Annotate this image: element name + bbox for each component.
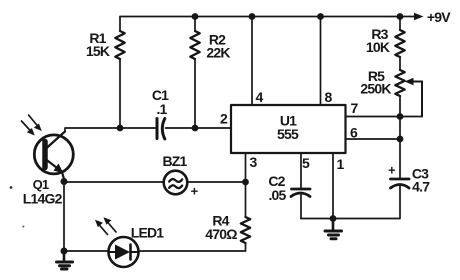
capacitor C1: [157, 119, 165, 140]
resistor R1: [115, 31, 124, 59]
junction: top rail / R3: [397, 13, 404, 20]
wire: R3 to R5: [399, 57, 401, 70]
junction: top rail / pin 4: [249, 13, 256, 20]
ground (right, pin 1): [325, 219, 342, 239]
transistor Q1 (phototransistor): [34, 132, 73, 180]
wire: Q1 emitter down to ground node: [63, 182, 65, 252]
wire: emitter to BZ1: [64, 181, 164, 183]
resistor R2: [190, 31, 199, 59]
wire: R1 top lead: [119, 17, 121, 32]
light arrows into Q1: [22, 115, 42, 136]
svg-text:2: 2: [220, 111, 228, 127]
LED LED1: [109, 237, 139, 267]
wire: R4 bottom to LED1: [139, 243, 246, 251]
svg-text:5: 5: [302, 155, 310, 171]
svg-text:8: 8: [325, 89, 333, 105]
resistor R4: [241, 217, 250, 243]
svg-text:470Ω: 470Ω: [205, 226, 237, 242]
power arrow +9V: [414, 13, 424, 21]
wire: pin 1 to ground: [332, 153, 334, 219]
wire: pin 6 to column: [346, 138, 401, 140]
svg-text:L14G2: L14G2: [23, 191, 63, 207]
svg-text:BZ1: BZ1: [162, 153, 187, 169]
junction: R1 bottom / collector node: [117, 125, 124, 132]
junction: R2 bottom / pin 2 node: [192, 125, 199, 132]
wire: pin 3 column: [245, 153, 247, 217]
wire: R1 bottom lead: [119, 59, 121, 128]
wire: LED1 to ground node: [64, 250, 109, 252]
buzzer BZ1: [164, 171, 188, 195]
wire: pin 5 upper lead: [300, 153, 302, 189]
wire: R5 bottom column to C3: [399, 96, 401, 179]
svg-text:+9V: +9V: [427, 9, 451, 25]
wire: Q1 collector up to node: [65, 128, 156, 132]
junction: top rail / pin 8: [317, 13, 324, 20]
svg-text:3: 3: [250, 154, 258, 170]
svg-text:4.7: 4.7: [412, 179, 430, 195]
junction: Q1 emitter node: [61, 178, 68, 185]
svg-text:555: 555: [277, 126, 299, 142]
wire: R2 bottom lead: [194, 59, 196, 128]
svg-text:LED1: LED1: [131, 225, 165, 241]
wire: pin 7 to R5 node: [346, 116, 423, 118]
wire: R2 top lead: [194, 17, 196, 32]
wire: C3 bottom to ground rail: [301, 186, 400, 219]
junction: top rail / R2: [192, 13, 199, 20]
ground (left, Q1/LED): [57, 251, 73, 269]
wire: pin 4 to rail: [251, 17, 253, 106]
capacitor C3 (electrolytic): [391, 179, 410, 188]
speck (scan artifact): [10, 186, 13, 189]
wire: pin 8 to rail: [320, 17, 322, 106]
IC U1 555 timer: [231, 105, 346, 153]
svg-text:1: 1: [337, 156, 345, 172]
wire: pin 5 lower lead: [300, 193, 302, 219]
svg-text:10K: 10K: [366, 39, 390, 55]
svg-text:+: +: [388, 163, 396, 178]
potentiometer R5: [395, 70, 422, 117]
svg-text:.1: .1: [156, 101, 167, 117]
wire: BZ1 to pin 3: [188, 181, 246, 183]
wire: R3 top lead: [399, 17, 401, 31]
wire: C1 to pin 2 of U1: [166, 127, 232, 129]
svg-text:6: 6: [350, 125, 358, 141]
svg-text:22K: 22K: [206, 45, 230, 61]
svg-text:4: 4: [256, 89, 264, 105]
svg-text:7: 7: [351, 100, 359, 116]
junction: pin 1 / ground rail: [330, 215, 337, 222]
svg-text:.05: .05: [268, 187, 286, 203]
wire: +9V top supply rail: [120, 16, 415, 18]
speck (scan artifact): [22, 226, 24, 228]
junction: ground node (left): [61, 248, 68, 255]
svg-text:15K: 15K: [86, 43, 110, 59]
capacitor C2: [291, 189, 310, 197]
junction: pin 7 / R5 bottom: [397, 113, 404, 120]
svg-text:250K: 250K: [360, 81, 391, 97]
junction: pin 6 / column: [397, 136, 404, 143]
resistor R3: [395, 30, 404, 57]
svg-text:+: +: [191, 184, 199, 199]
junction: pin 3 / BZ1 node: [242, 179, 249, 186]
light arrows from LED1: [95, 217, 116, 234]
